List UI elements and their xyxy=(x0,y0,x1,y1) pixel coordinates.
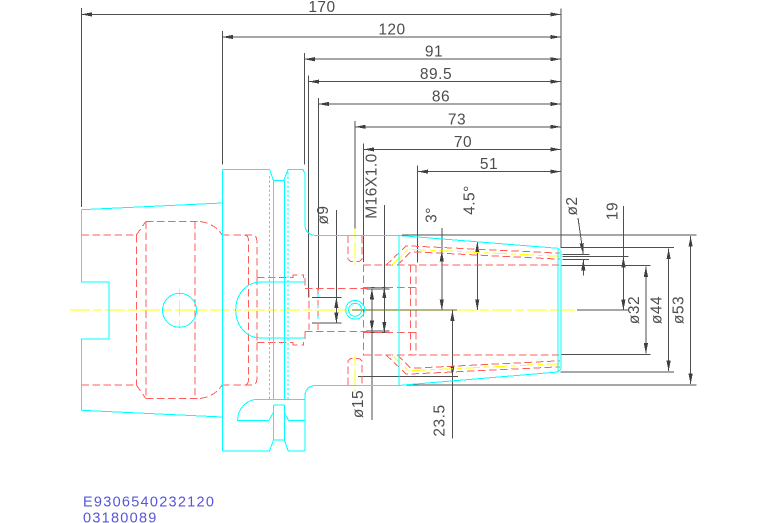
tab top line xyxy=(273,404,284,406)
collet outer taper bottom 1 xyxy=(386,355,560,374)
thread end vertical xyxy=(363,265,365,356)
dimension 23.5 xyxy=(358,310,458,438)
seal bump bottom xyxy=(293,342,303,345)
cartridge vertical left xyxy=(245,235,248,385)
pocket back vertical 1 xyxy=(410,265,412,355)
bore circle edge vertical 2 cyan overlay xyxy=(317,294,319,326)
dimension 120 xyxy=(222,22,561,39)
tab right vertical xyxy=(283,405,285,440)
nose face outer edge xyxy=(560,251,562,369)
extension line of 51 xyxy=(417,166,419,263)
pocket back vertical 2 xyxy=(415,265,417,355)
svg-text:ø2: ø2 xyxy=(564,196,581,215)
svg-text:03180089: 03180089 xyxy=(83,511,158,523)
svg-text:70: 70 xyxy=(454,134,472,151)
dimension 170 xyxy=(81,0,561,16)
svg-text:ø44: ø44 xyxy=(649,296,666,324)
notch tab slant left xyxy=(269,412,273,420)
svg-text:3°: 3° xyxy=(424,207,441,223)
svg-text:89.5: 89.5 xyxy=(420,66,452,83)
shank taper bottom edge xyxy=(81,410,222,417)
slot circle inner xyxy=(349,303,362,316)
circle crosshair vertical xyxy=(179,289,181,333)
flange top profile with V-groove xyxy=(222,169,304,180)
cavity arc top xyxy=(200,222,222,236)
cone base vertical xyxy=(398,236,400,385)
cross hole top slot xyxy=(348,236,362,262)
svg-text:120: 120 xyxy=(378,22,405,39)
dimension dia44 xyxy=(561,248,674,373)
dia2 hole reference lines xyxy=(563,253,590,255)
extension line left of 170 xyxy=(80,8,82,207)
angle 4.5 deg marker xyxy=(462,185,479,310)
dimension 89.5 xyxy=(309,66,562,83)
extension line of 86 xyxy=(317,98,319,290)
clamp dome xyxy=(236,282,260,338)
collet taper axis bottom xyxy=(392,355,561,371)
extension line of 120 xyxy=(221,31,223,165)
shank taper top edge xyxy=(81,203,222,210)
flange right face lower xyxy=(304,397,306,452)
shank circle xyxy=(163,293,197,327)
bore chamfer bottom xyxy=(136,385,146,399)
shank left face with notch xyxy=(81,210,109,411)
M16 thread top line xyxy=(364,287,417,289)
svg-text:19: 19 xyxy=(605,202,622,220)
svg-text:ø53: ø53 xyxy=(671,296,688,324)
svg-text:ø32: ø32 xyxy=(626,296,643,324)
shank bore entry line top xyxy=(81,234,136,236)
dia15 bore bottom line xyxy=(305,331,370,333)
extension line of 73 xyxy=(354,121,356,233)
cavity top line xyxy=(146,221,200,223)
svg-text:51: 51 xyxy=(480,156,498,173)
groove edge vertical 2 xyxy=(272,180,274,399)
dimension 51 xyxy=(418,156,562,173)
dimension dia15 xyxy=(350,289,390,420)
seal bump top xyxy=(293,275,303,278)
cavity bottom line xyxy=(146,398,200,400)
dimension M16X1.0 xyxy=(363,153,389,332)
flange notch arc xyxy=(238,399,259,420)
groove edge vertical 3 xyxy=(283,180,285,399)
dimension 91 xyxy=(304,44,561,61)
cavity step bottom xyxy=(257,341,293,343)
bottom slot centerline xyxy=(354,355,356,392)
svg-text:170: 170 xyxy=(308,0,335,16)
main centerline olive overlap part xyxy=(352,309,457,311)
svg-text:73: 73 xyxy=(448,111,466,128)
collet outer taper top 2 xyxy=(397,252,560,266)
top slot centerline xyxy=(354,229,356,266)
svg-text:ø9: ø9 xyxy=(315,205,332,224)
dome bottom line xyxy=(259,337,304,339)
M16 thread bottom line xyxy=(364,332,417,334)
svg-text:ø15: ø15 xyxy=(350,390,367,418)
dome top line xyxy=(259,281,304,283)
bore step vertical bottom xyxy=(304,332,306,343)
cartridge vertical right lower xyxy=(256,278,258,343)
dia15 bore top line xyxy=(305,287,370,289)
dimension 73 xyxy=(355,111,561,128)
slot circle outer xyxy=(346,300,365,319)
notch top line xyxy=(258,398,305,400)
cross hole bottom slot xyxy=(348,358,362,385)
cavity arc bottom xyxy=(200,385,222,399)
extension line of 91 xyxy=(303,53,305,165)
bore edge vertical 1 xyxy=(135,235,137,385)
bore chamfer top xyxy=(136,222,146,236)
angle 3 deg marker xyxy=(424,207,442,310)
bore edge vertical 2 xyxy=(145,222,147,399)
nose face chamfer bottom xyxy=(558,369,561,372)
flange bottom profile with V-groove xyxy=(222,440,304,451)
body bottom line xyxy=(318,384,402,386)
main centerline yellow right part xyxy=(457,309,575,311)
dia32 pocket top line xyxy=(364,264,561,266)
notch floor left xyxy=(238,419,269,421)
shank bore entry line bottom xyxy=(81,384,136,386)
nose cone bottom xyxy=(402,372,559,385)
svg-text:86: 86 xyxy=(432,89,450,106)
dimension dia32 xyxy=(561,265,651,354)
cavity seat line top xyxy=(222,235,257,277)
bore circle edge vertical 2 xyxy=(317,289,319,331)
tab bottom line xyxy=(273,439,284,441)
dimension dia53 xyxy=(402,235,696,385)
bore circle edge vertical 1 xyxy=(308,290,310,330)
nose cone top xyxy=(402,236,559,249)
dia32 pocket bottom line xyxy=(364,354,561,356)
svg-text:91: 91 xyxy=(425,44,443,61)
fillet top xyxy=(305,224,318,236)
extension line of 70 xyxy=(363,143,365,262)
collet taper axis top xyxy=(392,249,561,265)
collet outer taper bottom 2 xyxy=(397,355,560,369)
collet outer taper top 1 xyxy=(386,246,560,265)
body top line xyxy=(318,235,402,237)
extension line of 89.5 xyxy=(308,76,310,298)
notch tab slant right xyxy=(284,412,288,420)
dimension 86 xyxy=(318,89,561,106)
dia2 leader xyxy=(564,196,583,275)
dimension 70 xyxy=(364,134,562,151)
groove edge vertical 1 xyxy=(268,176,270,399)
svg-text:23.5: 23.5 xyxy=(431,404,448,436)
dimension dia9 xyxy=(312,205,342,323)
cavity seat line bottom xyxy=(222,342,257,384)
svg-text:M16X1.0: M16X1.0 xyxy=(363,153,380,219)
groove edge vertical 4 xyxy=(287,172,289,399)
main centerline yellow left part xyxy=(70,309,352,311)
svg-text:4.5°: 4.5° xyxy=(462,185,479,215)
cavity chord vertical xyxy=(194,222,196,399)
flange left face xyxy=(221,169,223,451)
cavity step top xyxy=(257,277,293,279)
bore step vertical top xyxy=(304,278,306,288)
nose face inner edge xyxy=(557,248,559,372)
svg-text:E9306540232120: E9306540232120 xyxy=(83,494,215,510)
flange right face xyxy=(304,173,306,224)
notch floor right xyxy=(289,419,305,421)
dimension 19 xyxy=(577,202,628,310)
extension line right common xyxy=(560,9,562,248)
nose face chamfer top xyxy=(558,248,561,251)
tab left vertical xyxy=(272,405,274,440)
fillet bottom xyxy=(305,385,318,397)
